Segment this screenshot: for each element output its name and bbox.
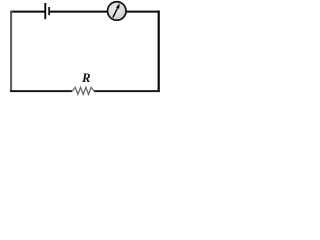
svg-text:R: R — [81, 71, 91, 85]
